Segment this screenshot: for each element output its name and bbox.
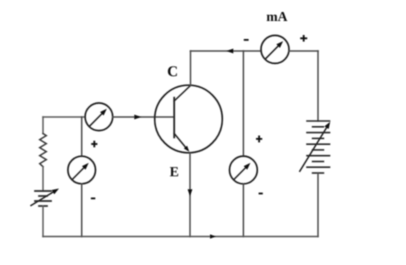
transistor Q1 base bar bbox=[173, 98, 175, 138]
label E (emitter) bbox=[170, 167, 178, 176]
meter M1 (base microammeter) bbox=[85, 103, 113, 131]
wire: left branch top segment bbox=[42, 117, 44, 134]
battery B2 (variable collector supply) plates bbox=[307, 121, 330, 173]
wire: emitter vertical to bottom rail with arrow bbox=[189, 154, 191, 237]
label mA bbox=[267, 15, 278, 21]
label minus at mA left bbox=[244, 39, 249, 41]
wire: voltmeter V2 to bottom rail bbox=[242, 184, 244, 237]
wire: battery B1 to bottom rail bbox=[42, 206, 44, 237]
wire: junction down to voltmeter V1 bbox=[81, 117, 83, 156]
wire: right battery top vertical bbox=[317, 51, 319, 121]
wire: bottom rail with current arrow bbox=[43, 236, 318, 238]
wire: top rail right from mA to battery corner bbox=[289, 50, 318, 52]
meter M1 needle bbox=[89, 112, 103, 126]
wire: battery B2 to bottom rail bbox=[317, 173, 319, 237]
resistor (base rheostat zigzag) bbox=[40, 134, 47, 167]
battery B2 variable arrow bbox=[300, 126, 328, 171]
voltmeter V2 (collector-emitter) bbox=[230, 156, 258, 184]
battery B1 (variable base supply) bbox=[35, 191, 51, 206]
label C (collector) bbox=[168, 66, 177, 76]
wire: top-left horizontal to meter M1 bbox=[43, 116, 85, 118]
battery B1 variable arrow bbox=[31, 191, 56, 206]
label minus at voltmeter V1 bbox=[91, 198, 95, 200]
voltmeter V1 needle bbox=[72, 166, 85, 179]
wire: meter M1 to transistor base with current arrow bbox=[113, 116, 175, 118]
wire: top rail left with arrow toward collector bbox=[191, 50, 262, 52]
wire: resistor to battery bbox=[42, 167, 44, 191]
milliammeter mA meter bbox=[261, 35, 289, 63]
wire: voltmeter V1 to bottom rail bbox=[81, 184, 83, 237]
label plus at mA right bbox=[300, 37, 307, 39]
voltmeter V1 (base-emitter) bbox=[68, 156, 96, 184]
label minus at voltmeter V2 bbox=[259, 193, 263, 195]
milliammeter needle bbox=[265, 45, 279, 59]
wire: collector voltmeter branch vertical bbox=[242, 51, 244, 156]
voltmeter V2 needle bbox=[234, 166, 247, 179]
wire: collector vertical up bbox=[190, 51, 192, 86]
transistor Q1 collector stroke bbox=[174, 86, 190, 102]
transistor Q1 (NPN) circle bbox=[155, 85, 223, 153]
label plus at voltmeter V2 bbox=[256, 138, 262, 140]
label plus at voltmeter V1 bbox=[91, 143, 97, 145]
transistor Q1 emitter stroke with arrow bbox=[174, 134, 187, 149]
